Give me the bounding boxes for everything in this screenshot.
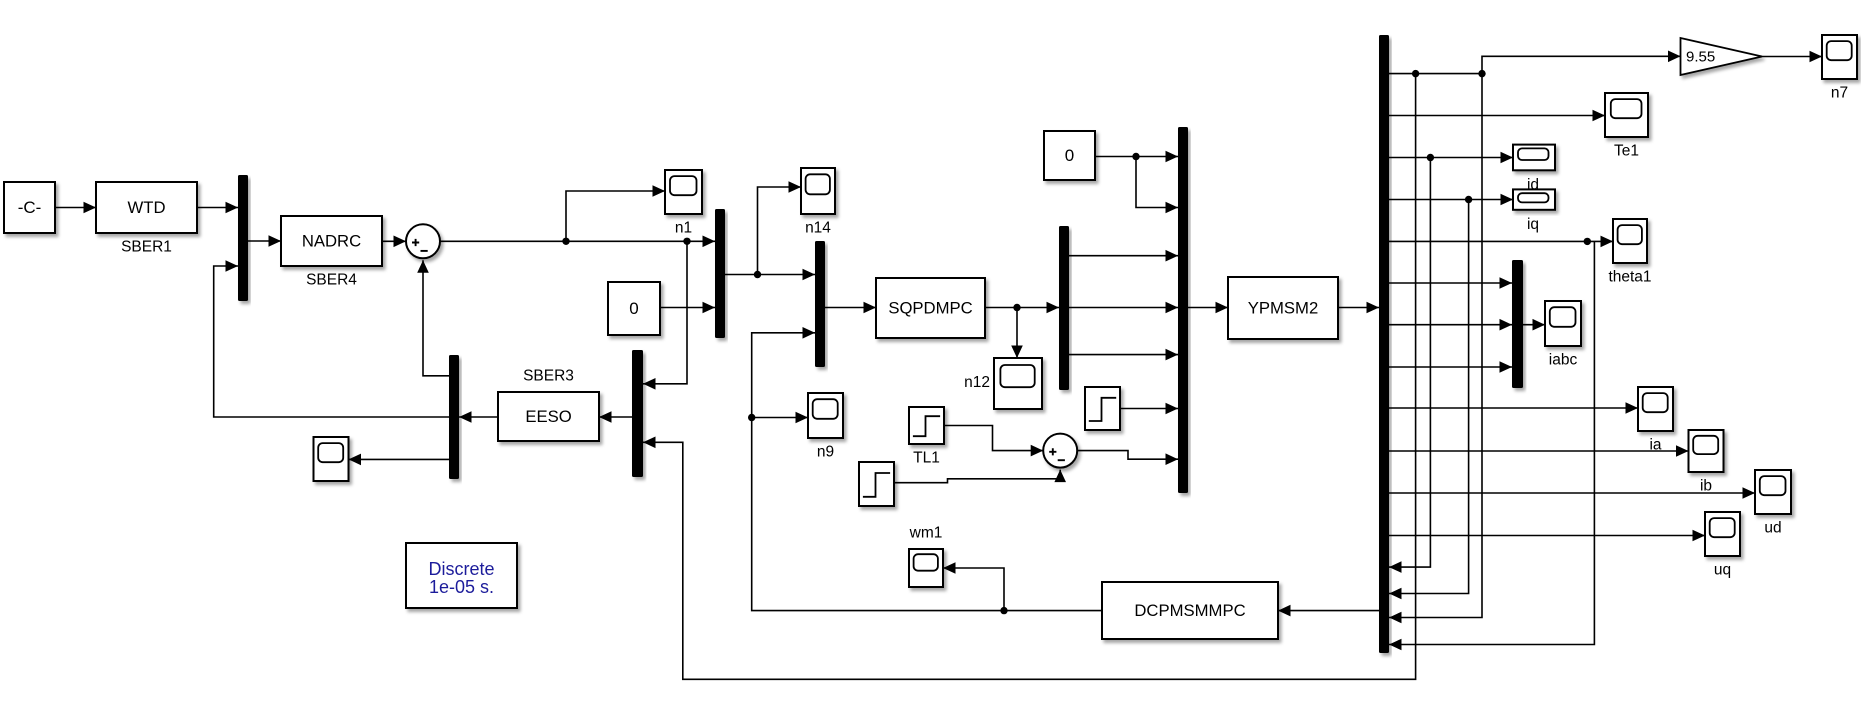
wire branch to demux bar3 top bbox=[643, 241, 687, 389]
wire step 3 to mux bar7 bbox=[1120, 403, 1178, 415]
svg-text:n1: n1 bbox=[675, 220, 692, 237]
wire branch to scope wm1 bbox=[943, 562, 1004, 610]
powergui Discrete annotation bbox=[406, 543, 517, 608]
svg-text:9.55: 9.55 bbox=[1686, 49, 1715, 66]
wire constant 0 b branch to mux bar7 in2 bbox=[1136, 157, 1178, 214]
svg-text:TL1: TL1 bbox=[913, 450, 940, 467]
wire demux bar2 to mux bar1 feedback bbox=[214, 260, 449, 417]
sum sum1 bbox=[406, 224, 440, 258]
svg-text:uq: uq bbox=[1714, 562, 1731, 579]
wire branch to scope n1 bbox=[566, 185, 665, 241]
svg-text:ud: ud bbox=[1764, 520, 1781, 537]
svg-text:DCPMSMMPC: DCPMSMMPC bbox=[1134, 601, 1245, 620]
svg-text:EESO: EESO bbox=[525, 407, 571, 426]
wire mux bar7 to YPMSM2 bbox=[1188, 302, 1228, 314]
scope n12 bbox=[994, 358, 1042, 409]
svg-text:n12: n12 bbox=[964, 374, 990, 391]
svg-text:theta1: theta1 bbox=[1608, 269, 1651, 286]
mux bar9 bbox=[1512, 260, 1523, 388]
wire bar8 out ud bbox=[1389, 487, 1755, 499]
wire bar8 out ic2 to mux bar9 bbox=[1389, 361, 1512, 373]
wire bar8 out ib2 to mux bar9 bbox=[1389, 319, 1512, 331]
svg-text:n7: n7 bbox=[1831, 85, 1848, 102]
wire mux bar4 to mux bar5 bbox=[725, 269, 815, 281]
scope wm1 bbox=[909, 549, 943, 587]
wire SQPDMPC to demux bar6 bbox=[985, 302, 1059, 314]
scope n9 bbox=[808, 393, 843, 438]
scope iabc bbox=[1545, 301, 1581, 346]
scope Te1 bbox=[1605, 93, 1648, 137]
step source step source 3 bbox=[1085, 387, 1120, 430]
wire bar8 out ib bbox=[1389, 445, 1689, 457]
wire demux bar6 out2 to mux bar7 bbox=[1069, 302, 1178, 314]
wire bar8 out id bbox=[1389, 152, 1513, 164]
wire TL1 to sum2 bbox=[944, 426, 1043, 457]
wire -C- to WTD bbox=[55, 202, 96, 214]
constant 0 b bbox=[1044, 131, 1095, 180]
mux bar5 bbox=[815, 241, 825, 367]
demux bar2 bbox=[449, 355, 459, 479]
wire feedback w to bar8 bbox=[1389, 74, 1482, 624]
wire feedback id to bar8 bbox=[1389, 158, 1430, 573]
svg-text:wm1: wm1 bbox=[909, 525, 943, 542]
wire branch to scope n9 bbox=[752, 412, 808, 424]
demux bar6 bbox=[1059, 226, 1069, 390]
svg-text:NADRC: NADRC bbox=[302, 232, 361, 251]
mux bar4 bbox=[715, 209, 725, 338]
wire bar8 out theta bbox=[1389, 236, 1613, 248]
scope n14 bbox=[801, 168, 835, 214]
wire mux bar1 to NADRC bbox=[248, 235, 281, 247]
mux bar7 bbox=[1178, 127, 1188, 493]
svg-text:Discrete: Discrete bbox=[428, 559, 494, 579]
wire branch to scope n12 bbox=[1011, 308, 1023, 359]
wire gain to scope n7 bbox=[1762, 51, 1822, 63]
wire DCPMSMMPC to mux bar5 bbox=[748, 327, 1102, 614]
step source step source 2 bbox=[859, 462, 894, 506]
scope ib bbox=[1689, 430, 1724, 472]
wire constant 0 b to mux bar7 in1 bbox=[1095, 151, 1178, 163]
demux bar3 bbox=[632, 350, 643, 477]
sum sum2 bbox=[1043, 434, 1077, 468]
wire long speed feedback to demux bar3 bbox=[643, 74, 1416, 680]
wire sum2 to mux bar7 bbox=[1077, 451, 1178, 465]
bus bar8 bbox=[1379, 35, 1389, 653]
svg-text:SBER1: SBER1 bbox=[121, 239, 172, 256]
wire sum1 to mux bar4 bbox=[440, 236, 715, 248]
scope uq bbox=[1705, 512, 1740, 556]
scope ia bbox=[1638, 387, 1673, 431]
wire feedback iq to bar8 bbox=[1389, 200, 1469, 600]
mux bar1 bbox=[238, 175, 248, 301]
scope theta1 bbox=[1613, 219, 1647, 263]
wire bar8 to DCPMSMMPC bbox=[1278, 605, 1379, 617]
subsystem EESO (SBER3) bbox=[498, 392, 599, 441]
wire YPMSM2 to bus bar8 bbox=[1338, 302, 1379, 314]
svg-text:SBER4: SBER4 bbox=[306, 272, 357, 289]
wire bar8 out iq bbox=[1389, 194, 1513, 206]
svg-text:1e-05 s.: 1e-05 s. bbox=[429, 577, 494, 597]
wire mux bar9 to scope iabc bbox=[1523, 319, 1545, 331]
wire EESO to demux bar2 bbox=[459, 411, 498, 423]
wire step 2 to sum2 bbox=[894, 470, 1066, 483]
subsystem DCPMSMMPC bbox=[1102, 582, 1278, 639]
svg-text:0: 0 bbox=[1065, 146, 1074, 165]
svg-text:0: 0 bbox=[629, 299, 638, 318]
wire demux bar3 to EESO bbox=[599, 411, 632, 423]
gain 9.55 bbox=[1681, 38, 1763, 75]
subsystem YPMSM2 bbox=[1228, 277, 1338, 339]
display id bbox=[1513, 145, 1555, 171]
wire bar8 out uq bbox=[1389, 530, 1705, 542]
svg-text:-C-: -C- bbox=[18, 198, 42, 217]
wire feedback theta to bar8 bbox=[1389, 241, 1594, 650]
scope ud bbox=[1755, 470, 1791, 514]
svg-text:iabc: iabc bbox=[1549, 352, 1578, 369]
subsystem NADRC (SBER4) bbox=[281, 216, 382, 266]
wire NADRC to sum1 bbox=[382, 236, 406, 248]
wire demux bar2 to scope left bbox=[349, 454, 450, 466]
wire bar8 out w to gain bbox=[1389, 51, 1681, 78]
wire demux bar6 out1 to mux bar7 bbox=[1069, 250, 1178, 262]
svg-text:SQPDMPC: SQPDMPC bbox=[888, 299, 972, 318]
wire WTD to mux bar1 bbox=[197, 202, 238, 214]
constant -C- bbox=[4, 182, 55, 233]
scope n1 bbox=[665, 170, 702, 214]
step source step TL1 bbox=[909, 407, 944, 444]
svg-text:n9: n9 bbox=[817, 444, 834, 461]
constant 0 a bbox=[608, 282, 660, 335]
wire bar8 out Te bbox=[1389, 110, 1605, 122]
wire bar8 out ia bbox=[1389, 402, 1638, 414]
svg-text:YPMSM2: YPMSM2 bbox=[1248, 299, 1318, 318]
wire branch to scope n14 bbox=[758, 181, 802, 274]
subsystem SQPDMPC bbox=[876, 278, 985, 338]
wire constant 0 a to mux bar4 bbox=[660, 302, 715, 314]
scope n7 bbox=[1822, 35, 1857, 79]
scope scope left bbox=[314, 437, 349, 481]
svg-text:ib: ib bbox=[1700, 478, 1712, 495]
wire mux bar5 to SQPDMPC bbox=[825, 302, 876, 314]
display iq bbox=[1513, 189, 1555, 209]
wire demux bar6 out3 to mux bar7 bbox=[1069, 349, 1178, 361]
wire bar8 out ia2 to mux bar9 bbox=[1389, 277, 1512, 289]
svg-text:SBER3: SBER3 bbox=[523, 368, 574, 385]
svg-text:WTD: WTD bbox=[128, 198, 166, 217]
svg-text:iq: iq bbox=[1527, 216, 1539, 233]
wire demux bar2 to sum1 bbox=[417, 260, 449, 376]
svg-text:n14: n14 bbox=[805, 220, 831, 237]
subsystem WTD (SBER1) bbox=[96, 182, 197, 233]
svg-text:Te1: Te1 bbox=[1614, 143, 1639, 160]
